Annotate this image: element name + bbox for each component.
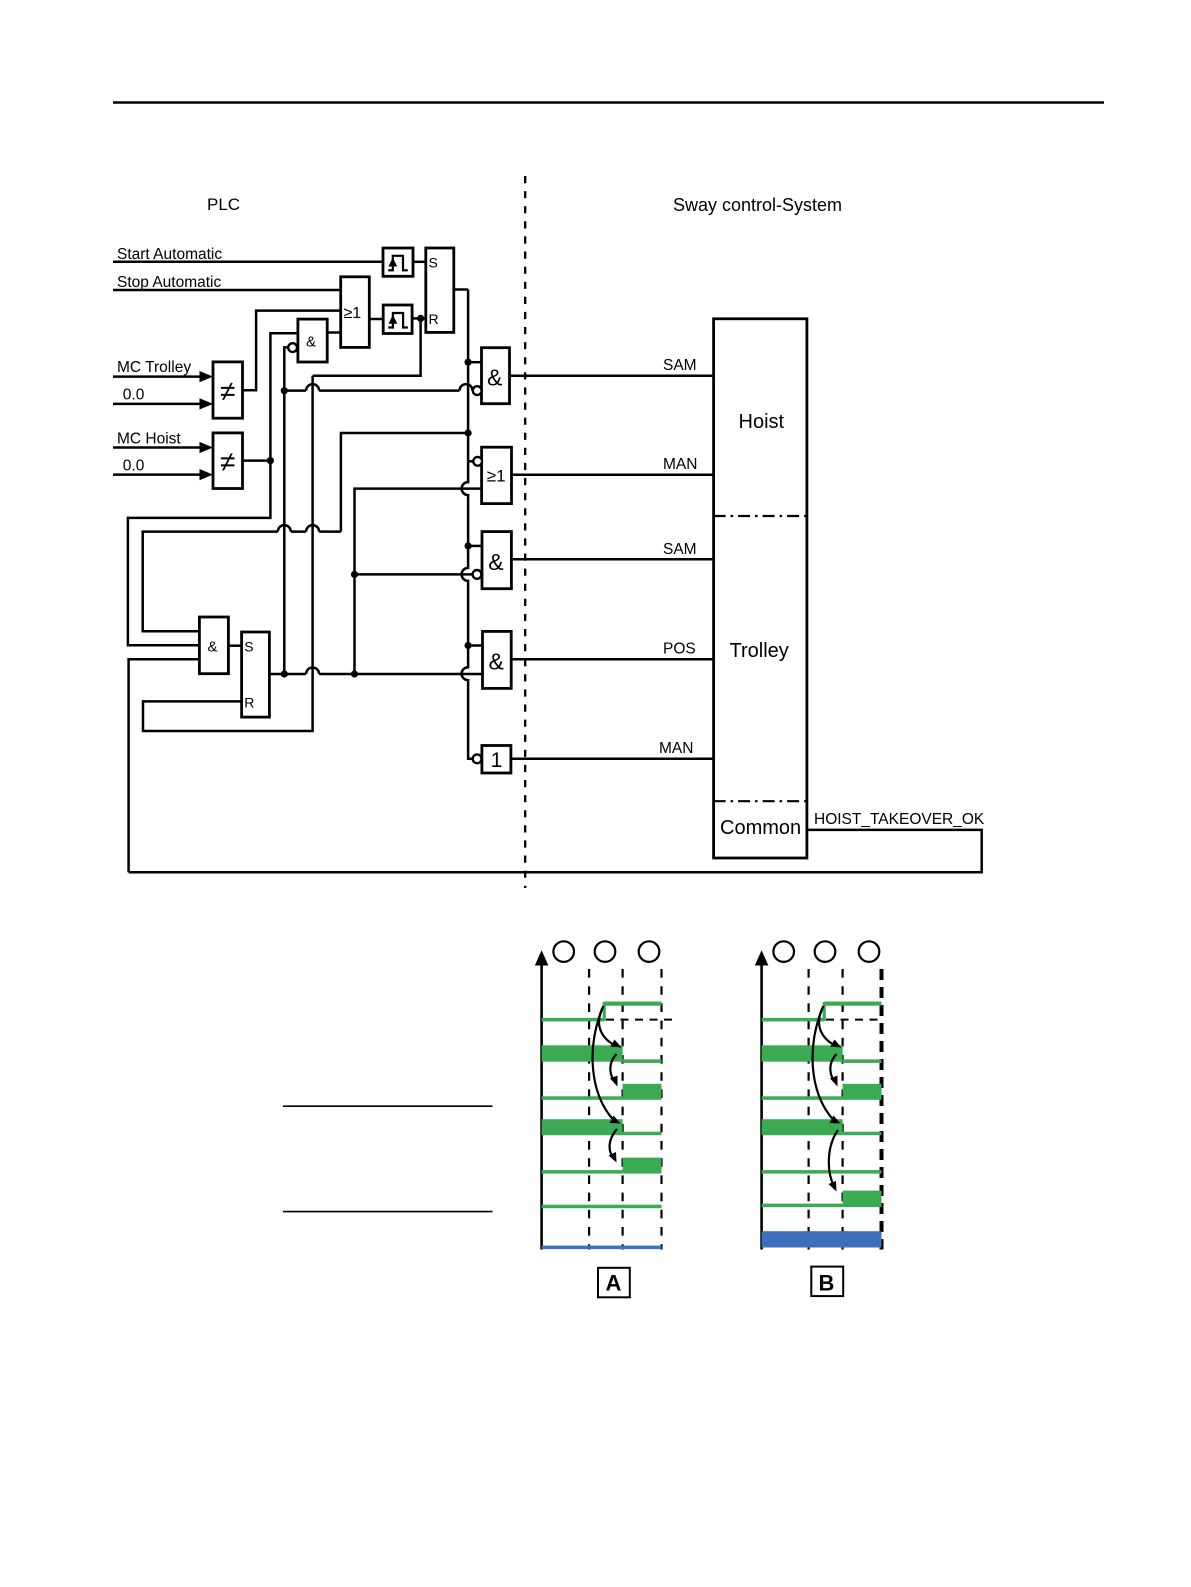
svg-text:Sway control-System: Sway control-System xyxy=(673,195,842,215)
flip-flop SR2 xyxy=(242,632,270,717)
signal A row1 rising step xyxy=(603,1002,606,1021)
gridline A t3 xyxy=(660,969,662,1250)
svg-text:0.0: 0.0 xyxy=(123,386,145,403)
svg-text:A: A xyxy=(606,1270,622,1295)
signal B row6 bar xyxy=(843,1191,882,1208)
svg-text:MC Hoist: MC Hoist xyxy=(117,431,181,448)
gridline B t1 xyxy=(807,969,809,1250)
signal A row6 thin line xyxy=(542,1205,662,1209)
junction dot bus-G3 xyxy=(465,542,472,549)
arrow B4 xyxy=(829,1130,838,1186)
junction dot N2 out xyxy=(267,457,274,464)
flip-flop SR1 xyxy=(426,248,454,332)
svg-text:POS: POS xyxy=(663,641,696,658)
circle A1 xyxy=(553,941,574,962)
signal A row5 bar xyxy=(623,1158,662,1174)
circle A3 xyxy=(639,941,660,962)
svg-text:1: 1 xyxy=(491,749,503,772)
svg-text:Start Automatic: Start Automatic xyxy=(117,246,222,263)
svg-text:R: R xyxy=(244,695,254,711)
circle A2 xyxy=(595,941,616,962)
junction dot SR2out-354 xyxy=(351,670,358,677)
signal B row7 blue bar xyxy=(762,1231,882,1247)
arrow A4 xyxy=(610,1129,617,1158)
arrow B3 xyxy=(813,1008,833,1120)
svg-text:PLC: PLC xyxy=(207,195,240,214)
svg-text:B: B xyxy=(819,1270,835,1295)
svg-text:MC Trolley: MC Trolley xyxy=(117,359,191,376)
wire SR1 output to bus xyxy=(454,288,468,291)
arrow A3 xyxy=(593,1008,613,1120)
signal A row7 blue line xyxy=(542,1246,662,1250)
label box B xyxy=(811,1267,843,1297)
svg-text:Common: Common xyxy=(720,817,801,839)
wire riser x354 to G2 lower input xyxy=(355,489,482,674)
signal B row1 high segment xyxy=(824,1002,882,1006)
inverter bubble G2 upper input xyxy=(473,457,482,466)
edge detector E2 (rising edge pulse) xyxy=(383,305,412,334)
wire riser x312 down to R feedback loop xyxy=(143,376,313,731)
junction dot R-node xyxy=(417,315,424,322)
signal B row5 thin line full xyxy=(762,1170,882,1174)
svg-text:S: S xyxy=(244,639,253,655)
signal A row3 thin line xyxy=(542,1096,623,1100)
circle B2 xyxy=(815,941,836,962)
edge detector E1 (rising edge pulse) xyxy=(383,248,413,276)
wire feedback left riser to U4 input 3 xyxy=(129,659,200,872)
signal A row2 thin line xyxy=(623,1059,662,1063)
wire main bus x468 with hops xyxy=(462,290,473,759)
and gate G4 (POS trolley) xyxy=(483,631,512,688)
svg-text:≠: ≠ xyxy=(220,376,235,407)
and gate G3 (SAM trolley) xyxy=(482,532,511,589)
signal A row2 bar xyxy=(542,1045,623,1061)
inverter bubble G1 lower input xyxy=(473,386,482,395)
and gate G1 (SAM hoist) xyxy=(482,348,510,404)
arrow B2 xyxy=(830,1054,836,1081)
signal B row4 thin line xyxy=(843,1132,882,1136)
inverter bubble on U3 lower input xyxy=(288,343,297,352)
comparator N2 (MC Hoist != 0.0) xyxy=(213,433,243,489)
wire G5 output MAN2 xyxy=(511,758,714,761)
divider hoist/trolley (dash-dot) xyxy=(714,515,807,517)
svg-text:Hoist: Hoist xyxy=(739,411,785,433)
circle B3 xyxy=(859,941,880,962)
svg-text:SAM: SAM xyxy=(663,357,697,374)
signal A row1 high segment xyxy=(604,1002,662,1006)
wire bus stub to G2 bubble xyxy=(468,460,474,463)
wire U3 output to OR input xyxy=(327,331,341,334)
block Sway control system box xyxy=(714,319,807,858)
wire N2-node down-left to lower AND input 2 xyxy=(128,461,271,646)
wire 0.0 hoist input with arrowhead xyxy=(113,473,202,476)
dashed continuation B row1 xyxy=(826,1019,884,1021)
svg-text:S: S xyxy=(429,255,438,271)
svg-text:≠: ≠ xyxy=(220,446,235,477)
not gate G5 (MAN trolley) xyxy=(482,746,511,774)
svg-text:≥1: ≥1 xyxy=(344,305,362,322)
wire G1 output SAM xyxy=(510,374,714,377)
rule left blank label 2 xyxy=(283,1211,493,1213)
wire SR2 output line y674 with hop xyxy=(269,673,482,676)
axis A xyxy=(540,962,543,1250)
inverter bubble G5 input xyxy=(473,754,482,763)
junction dot bus-G4 xyxy=(465,642,472,649)
wire R-node down to left riser xyxy=(313,318,421,375)
wire OR output to E2 xyxy=(369,318,383,321)
signal B row6 thin line xyxy=(762,1204,843,1208)
wire Stop Automatic xyxy=(113,289,341,292)
arrow A1 xyxy=(599,1006,614,1045)
gridline B t2 xyxy=(841,969,843,1250)
svg-text:MAN: MAN xyxy=(663,456,697,473)
wire bus284 up to U3 bubble xyxy=(284,347,288,674)
svg-text:&: & xyxy=(208,639,218,656)
wire bus stub to G4 upper input xyxy=(468,644,482,647)
dashed continuation A row1 xyxy=(606,1019,672,1021)
and gate U3 (top-left, with inverted input) xyxy=(298,319,327,362)
junction dot 284-390 xyxy=(281,387,288,394)
junction dot 354-574 xyxy=(351,571,358,578)
wire bus stub to G1 upper input xyxy=(468,361,481,364)
signal A row1 thin line xyxy=(542,1018,604,1022)
top rule xyxy=(113,101,1104,104)
svg-text:≥1: ≥1 xyxy=(487,467,506,486)
rule left blank label 1 xyxy=(283,1105,493,1107)
wire G3 output SAM2 xyxy=(511,558,713,561)
svg-text:0.0: 0.0 xyxy=(123,458,145,475)
wire E1 to S of SR1 xyxy=(413,261,426,264)
svg-text:Trolley: Trolley xyxy=(730,640,789,662)
wire 0.0 input with arrowhead xyxy=(113,403,202,406)
inverter bubble G3 lower input xyxy=(473,570,482,579)
divider trolley/common (dash-dot) xyxy=(714,800,807,802)
comparator N1 (MC Trolley != 0.0) xyxy=(213,362,243,418)
wire G4 output POS xyxy=(511,658,713,661)
axis B xyxy=(760,962,763,1250)
svg-text:Stop Automatic: Stop Automatic xyxy=(117,274,222,291)
wire U4 output to S of SR2 xyxy=(228,644,241,647)
signal B row3 thin line xyxy=(762,1096,843,1100)
signal B row3 bar xyxy=(843,1084,882,1100)
wire G2 output MAN xyxy=(512,473,714,476)
svg-text:&: & xyxy=(489,649,504,675)
signal B row4 bar xyxy=(762,1119,843,1135)
svg-text:&: & xyxy=(306,334,316,351)
svg-text:HOIST_TAKEOVER_OK: HOIST_TAKEOVER_OK xyxy=(814,811,985,828)
signal A row5 thin line xyxy=(542,1170,623,1174)
signal B row2 bar xyxy=(762,1045,843,1061)
and gate U4 (lower-left) xyxy=(199,617,228,674)
wire hop arcs on y531 xyxy=(278,525,319,532)
signal B row1 rising step xyxy=(823,1002,826,1021)
or gate G2 (MAN hoist) xyxy=(482,447,512,503)
label box A xyxy=(598,1268,630,1298)
signal A row4 thin line xyxy=(623,1132,662,1136)
signal A row4 bar xyxy=(542,1119,623,1135)
gridline B t3 (bold) xyxy=(880,969,884,1250)
signal B row2 thin line xyxy=(843,1059,882,1063)
arrow B1 xyxy=(819,1006,834,1045)
gridline A t1 xyxy=(588,969,590,1250)
svg-text:&: & xyxy=(488,549,503,575)
wire N2-node riser up to U3 upper input xyxy=(270,333,298,460)
or gate U2 (>=1) xyxy=(341,277,370,348)
junction dot SR2out-284 xyxy=(281,670,288,677)
wire MC Trolley input with arrowhead xyxy=(113,375,202,378)
signal A row3 bar xyxy=(623,1084,662,1100)
wire from bus-433 left and down to lower AND input 1 xyxy=(143,433,468,631)
wire y390 to G1 bubble with hops xyxy=(284,389,472,392)
wire bottom feedback bus xyxy=(129,830,982,872)
wire bus stub to G3 upper input xyxy=(468,545,482,548)
junction dot bus-433 xyxy=(465,429,472,436)
gridline A t2 xyxy=(621,969,623,1250)
wire N2 output node xyxy=(243,459,271,462)
junction dot bus-G1 xyxy=(465,359,472,366)
svg-text:MAN: MAN xyxy=(659,740,693,757)
arrow A2 xyxy=(610,1054,616,1081)
signal B row1 thin line xyxy=(762,1018,824,1022)
circle B1 xyxy=(773,941,794,962)
wire E2 to R of SR1 xyxy=(412,317,426,320)
wire N1 output up to OR input xyxy=(243,311,341,391)
wire Start Automatic xyxy=(113,261,383,264)
wire y574 to G3 bubble xyxy=(355,573,473,576)
wire MC Hoist input with arrowhead xyxy=(113,446,202,449)
svg-text:&: & xyxy=(487,365,502,391)
dashed separator line xyxy=(524,176,526,888)
svg-text:SAM: SAM xyxy=(663,541,697,558)
svg-text:R: R xyxy=(429,311,439,327)
